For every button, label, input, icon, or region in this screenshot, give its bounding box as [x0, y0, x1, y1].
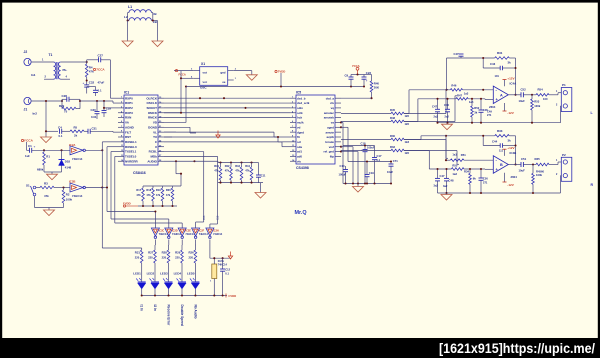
wire C9/C23 top link [351, 74, 364, 76]
inverter IC2C 74HC14 [154, 225, 156, 228]
wire AOUTB- to op-amp B [404, 150, 457, 152]
resistor R26 220 [194, 250, 197, 263]
svg-text:1k5: 1k5 [405, 151, 410, 155]
op-amp IC4B [493, 156, 508, 173]
svg-text:RXP3: RXP3 [125, 111, 133, 115]
capacitor C19 [366, 162, 368, 175]
svg-text:-12V: -12V [507, 111, 514, 115]
wire C row to IC5 sda [164, 141, 282, 143]
svg-text:R47: R47 [457, 93, 462, 97]
svg-text:7CCA: 7CCA [96, 68, 105, 72]
wire AOUTA+ to op-amp A [404, 113, 446, 115]
svg-text:10uF: 10uF [387, 170, 393, 174]
svg-text:C17: C17 [377, 154, 382, 158]
inverter IC2B 74HC14 [70, 183, 83, 192]
capacitor C47 shunt A [437, 99, 439, 110]
capacitor C17 [374, 146, 376, 158]
capacitor C40 shunt A [447, 99, 449, 110]
svg-text:FVDD: FVDD [123, 202, 131, 206]
svg-text:C43: C43 [490, 62, 496, 66]
svg-text:R1: R1 [46, 155, 50, 159]
svg-text:R35: R35 [535, 157, 541, 161]
inductor L2 FB [129, 18, 151, 21]
wire supply rail horizontal [186, 86, 364, 88]
junction R34 top [469, 168, 471, 170]
svg-text:100uF: 100uF [367, 145, 375, 149]
capacitor C11 [258, 163, 260, 176]
wire AUDIO row [164, 160, 195, 162]
wire feedback right leg B [515, 136, 517, 165]
svg-text:C30: C30 [91, 108, 97, 112]
wire VL row stub [164, 131, 176, 133]
junction inverter1 feed [154, 210, 156, 212]
wire pair right riser [76, 108, 80, 110]
resistor R56 load [532, 165, 534, 174]
svg-text:R4560: R4560 [536, 169, 544, 173]
capacitor C27 [98, 57, 100, 62]
wire LED1 to bus [141, 289, 143, 296]
IC1 pin VA [118, 121, 124, 123]
svg-text:PE-: PE- [63, 68, 68, 72]
svg-text:C47: C47 [432, 105, 437, 109]
caption bar [0, 338, 600, 358]
capacitor C28 [62, 98, 67, 100]
inverter IC2E 74HC14 [181, 225, 183, 228]
IC5 pin vd [290, 126, 296, 128]
svg-text:U: U [155, 145, 157, 149]
svg-text:OSCLK: OSCLK [147, 101, 158, 105]
wire AOUTB+ row [341, 139, 391, 141]
wire L1-L2 right join [151, 12, 152, 14]
inverter IC2H 74HC14 [209, 225, 211, 228]
svg-text:680k: 680k [37, 168, 44, 172]
svg-text:LED5: LED5 [187, 272, 195, 276]
power flag FCCA [21, 139, 23, 141]
svg-text:C4: C4 [58, 126, 62, 130]
svg-text:C40: C40 [444, 103, 449, 107]
resistor R51 [446, 159, 450, 161]
junction C28 pair right [79, 100, 81, 102]
junction node X B [445, 135, 447, 137]
svg-text:CS4398: CS4398 [296, 166, 309, 170]
wire TX row to IC5 scl [164, 136, 278, 138]
IC5 pin dsd_sclk [290, 102, 296, 104]
svg-text:sdin: sdin [297, 106, 303, 110]
resistor R45 [391, 112, 404, 115]
capacitor C50 shunt B [480, 169, 482, 178]
ground reference circuit [51, 172, 53, 174]
IC1 pin RST [118, 136, 124, 138]
svg-text:IC2G: IC2G [218, 259, 224, 263]
wire cap bank top rail A [343, 145, 375, 147]
svg-text:3k: 3k [508, 138, 512, 142]
feedback capacitor C43 [482, 58, 484, 68]
wire P1 pin2 down to ground bus A [560, 106, 562, 123]
svg-text:C71: C71 [393, 159, 398, 163]
power arrow at jumper net [230, 252, 232, 257]
capacitor C31 [84, 130, 88, 132]
svg-text:47k: 47k [166, 193, 171, 197]
svg-text:No Audio: No Audio [193, 305, 197, 319]
IC1 pin TXSEL0 [118, 155, 124, 157]
svg-text:FCCA: FCCA [24, 139, 33, 143]
svg-text:Receive Error: Receive Error [166, 305, 170, 326]
junction C48 top [480, 98, 482, 100]
junction T1-R4 node [86, 61, 88, 63]
wire R54 to P1 pin1 [549, 94, 558, 96]
svg-text:vq: vq [331, 106, 335, 110]
wire data bus row 4 IC1-IC5 [164, 112, 290, 114]
wire dsd_a row extension [341, 97, 372, 99]
wire C32-C3 top link [87, 86, 96, 88]
capacitor C1 electrolytic [29, 148, 31, 153]
svg-text:+: + [83, 81, 85, 85]
svg-text:R30: R30 [390, 134, 395, 138]
svg-text:0.1: 0.1 [59, 134, 63, 138]
svg-text:7CCA: 7CCA [352, 64, 360, 68]
junction X1 vcc [180, 77, 182, 79]
svg-text:TX: TX [153, 135, 157, 139]
wire FILT net left [46, 130, 58, 132]
svg-text:R48: R48 [390, 116, 395, 120]
wire FILT net ground stub [45, 131, 47, 137]
junction C12 top [222, 257, 224, 259]
svg-text:dsd_a: dsd_a [326, 96, 335, 100]
junction right of L2 [152, 19, 154, 21]
svg-text:IC1: IC1 [124, 91, 129, 95]
svg-text:R: R [591, 183, 594, 187]
wire S1 to R3 [36, 187, 40, 189]
wire AOUTA+ row [341, 113, 391, 115]
wire AOUTA- row [341, 121, 391, 123]
wire node X vertical A [446, 58, 448, 90]
junction C18 top [364, 144, 366, 146]
wire node down to LED1 resistor [101, 188, 103, 249]
wire data bus row 1 IC1-IC5 [164, 97, 290, 99]
svg-text:Double Speed: Double Speed [180, 305, 184, 326]
IC1 pin RXP0 [118, 97, 124, 99]
resistor R55 [451, 168, 463, 171]
svg-text:74HC14: 74HC14 [159, 233, 169, 236]
wire output node to inverter1 feed [102, 187, 107, 189]
svg-text:4148: 4148 [65, 166, 72, 170]
svg-text:1a3: 1a3 [464, 91, 469, 95]
wire R35 to P2 pin1 [549, 164, 558, 166]
resistor R29 220 [181, 250, 184, 263]
wire R56 bottom [532, 184, 534, 193]
svg-text:LED3: LED3 [160, 272, 168, 276]
resistor R18 [152, 186, 154, 188]
wire R41 bank bottom bus [218, 182, 263, 184]
svg-text:In1: In1 [31, 73, 36, 77]
svg-text:ad0: ad0 [297, 155, 302, 159]
svg-text:bmute: bmute [325, 140, 334, 144]
svg-text:RST: RST [125, 135, 131, 139]
resistor R40 [371, 75, 373, 82]
junction R52 top [471, 98, 473, 100]
junction node X A [445, 89, 447, 91]
svg-text:IC2B: IC2B [69, 180, 75, 184]
svg-text:acplb: acplb [326, 135, 334, 139]
feedback resistor R31 [447, 57, 495, 59]
resistor R43 [240, 161, 242, 163]
junction B minus node [445, 159, 447, 161]
svg-text:MDb: MDb [151, 155, 158, 159]
capacitor C10 electrolytic [342, 146, 344, 170]
wire C52 to R54 [523, 94, 536, 96]
svg-text:1a1: 1a1 [452, 153, 457, 157]
jumper IC2G 74HC14 [212, 264, 217, 279]
junction D18 top [60, 149, 62, 151]
capacitor C4 [59, 129, 61, 134]
wire X1 gnd to ground [234, 70, 252, 72]
svg-text:75: 75 [64, 110, 68, 114]
svg-text:R51: R51 [461, 153, 466, 157]
junction feedback output A [514, 94, 516, 96]
svg-text:P1: P1 [562, 83, 566, 87]
svg-text:RXP0: RXP0 [125, 96, 133, 100]
resistor R44 [250, 161, 252, 163]
wire L1-L2 left join [128, 12, 129, 14]
svg-text:+12V: +12V [507, 146, 515, 150]
resistor R4 [86, 62, 88, 64]
svg-text:R31: R31 [497, 51, 503, 55]
svg-text:C1: C1 [28, 144, 32, 148]
wire inverter1 feed [107, 211, 155, 213]
svg-text:74HC14: 74HC14 [199, 233, 209, 236]
wire R3 to IC2B [54, 187, 70, 189]
svg-text:Mr.Q: Mr.Q [295, 210, 307, 216]
wire AOUTB+ jog to node X [404, 139, 421, 141]
wire P2 pin2 down to ground bus B [560, 176, 562, 193]
wire C27 to IC1 RXP0 [101, 59, 111, 61]
svg-text:gnd: gnd [220, 70, 225, 74]
svg-text:C32: C32 [89, 81, 95, 85]
svg-text:C47: C47 [440, 174, 445, 178]
op-amp IC4A [493, 86, 508, 103]
capacitor C32 electrolytic [84, 84, 89, 86]
svg-text:C49: C49 [487, 109, 492, 113]
junction C40 top [446, 98, 448, 100]
wire VL row to IC5 flt [164, 131, 274, 133]
wire data bus row 5 IC1-IC5 [164, 117, 290, 119]
svg-text:0.1: 0.1 [225, 272, 229, 276]
op-amp IC1 CS8416 receiver [124, 95, 158, 165]
IC1 pin NVRERR [118, 160, 124, 162]
wire R29 to LED4 [181, 263, 183, 282]
svg-text:271: 271 [487, 113, 492, 117]
wire va riser down [341, 121, 343, 123]
svg-text:1a3: 1a3 [452, 172, 457, 176]
IC5 pin vls [290, 160, 296, 162]
svg-text:scl: scl [297, 140, 301, 144]
svg-text:AUDIO: AUDIO [147, 159, 157, 163]
IC5 pin ad0 [290, 155, 296, 157]
wire R40 bottom to dsd_a row [371, 92, 373, 98]
svg-text:R26: R26 [189, 251, 195, 255]
svg-text:1uF: 1uF [25, 154, 30, 158]
svg-text:74HC14: 74HC14 [185, 233, 195, 236]
capacitor C47 shunt B [437, 169, 439, 178]
svg-text:IC5: IC5 [296, 91, 301, 95]
wire S1 bottom [34, 196, 36, 208]
svg-text:R54: R54 [538, 88, 544, 92]
svg-text:2a2: 2a2 [434, 115, 439, 119]
svg-text:RXN: RXN [125, 116, 131, 120]
resistor R48 [391, 120, 404, 123]
ground cap bank [357, 184, 359, 187]
wire AUDIO tap down to R17 bank [175, 161, 177, 173]
IC5 pin scl [290, 141, 296, 143]
wire TXSEL1 riser [111, 151, 118, 153]
power flag FCCA at X1 [174, 70, 194, 72]
wire R40 top link [364, 74, 372, 76]
svg-text:flip: flip [330, 155, 335, 159]
svg-text:R41: R41 [214, 164, 219, 168]
junction C71 top [390, 160, 392, 162]
capacitor C12 [222, 258, 224, 269]
svg-text:9k: 9k [473, 177, 477, 181]
junction riser 107 [106, 186, 108, 188]
svg-text:FILT: FILT [125, 130, 131, 134]
svg-text:B: B [500, 163, 503, 167]
wire C51 to R35 [523, 164, 536, 166]
svg-text:1k5: 1k5 [405, 114, 410, 118]
wire DGND row stub [164, 126, 190, 128]
svg-text:R43: R43 [235, 164, 240, 168]
svg-text:agnd: agnd [327, 125, 334, 129]
wire inverter to resistor R27 [154, 240, 156, 246]
ground bus A ground symbol [446, 123, 448, 125]
junction IC2B output node [101, 186, 103, 188]
resistor R1 [43, 150, 45, 152]
IC1 pin RXP1 [118, 102, 124, 104]
svg-text:47k: 47k [245, 169, 250, 173]
svg-text:74HC14: 74HC14 [72, 157, 83, 161]
wire AOUTB- row [341, 150, 391, 152]
junction supply rail C23 [363, 85, 365, 87]
svg-text:L1: L1 [128, 5, 132, 9]
svg-text:DGND: DGND [148, 125, 158, 129]
ground below L2 left [122, 41, 133, 47]
svg-text:C10: C10 [340, 164, 345, 168]
feedback capacitor C44 [482, 136, 484, 146]
resistor R17 [142, 186, 144, 188]
junction C50 top [480, 168, 482, 170]
junction C48b top [445, 168, 447, 170]
svg-text:C47: C47 [454, 52, 459, 56]
wire C32 bottom stub [86, 87, 88, 93]
wire R2 bottom [63, 203, 65, 208]
svg-text:C28: C28 [62, 94, 68, 98]
resistor R46 [450, 89, 462, 92]
svg-text:2604: 2604 [511, 175, 518, 179]
wire inverter3 feed [115, 222, 182, 224]
wire C4 to R5 [62, 130, 70, 132]
junction jumper top [213, 257, 215, 259]
svg-text:R2: R2 [66, 193, 70, 197]
IC1 pin FILT [118, 131, 124, 133]
wire R17 bank bottom rail FVDD [138, 205, 177, 207]
svg-text:47uF: 47uF [98, 81, 105, 85]
svg-text:220: 220 [189, 256, 194, 260]
wire C1 to R1 node [32, 149, 70, 151]
power flag 7CCA analog supply [93, 68, 95, 70]
junction R53 tap [531, 94, 533, 96]
IC1 pin RXSEL0 [118, 146, 124, 148]
svg-text:220: 220 [162, 256, 167, 260]
diode D18 1N4148 [61, 150, 63, 159]
wire R51 to op-amp B minus [464, 159, 493, 161]
resistor R19 [162, 186, 164, 188]
resistor R3 [40, 186, 54, 189]
svg-text:47k: 47k [136, 193, 141, 197]
resistor R21 220 [140, 250, 143, 263]
svg-text:C51: C51 [521, 157, 527, 161]
wire data bus row 2 IC1-IC5 [164, 102, 290, 104]
svg-text:R17: R17 [136, 188, 141, 192]
svg-text:RMCK: RMCK [148, 116, 158, 120]
svg-text:2k: 2k [74, 134, 78, 138]
svg-text:R33: R33 [497, 129, 503, 133]
IC5 pin ad1 [290, 151, 296, 153]
inverter IC2A 74HC14 [70, 146, 83, 155]
wire FCCA to C1 [26, 142, 28, 150]
IC1 pin RXP2 [118, 107, 124, 109]
svg-text:lrck: lrck [297, 116, 303, 120]
wire VD row to supply riser [164, 121, 186, 123]
svg-text:R27: R27 [148, 251, 154, 255]
junction IC2A output [101, 149, 103, 151]
wire AOUTB- jog to R55 [404, 150, 429, 152]
wire node X vertical B [445, 136, 447, 160]
wire LED2 to bus [154, 289, 156, 296]
svg-text:C50: C50 [483, 177, 488, 181]
resistor R42 [230, 161, 232, 163]
oscillator X1 [200, 67, 228, 86]
svg-text:C19: C19 [369, 171, 374, 175]
svg-text:vcc: vcc [203, 80, 208, 84]
svg-text:RXSEL1: RXSEL1 [125, 140, 137, 144]
IC1 pin RXN [118, 117, 124, 119]
svg-text:C13: C13 [204, 215, 206, 220]
svg-text:C9: C9 [345, 74, 349, 78]
junction A minus node [482, 89, 484, 91]
junction R56 tap [532, 163, 534, 165]
svg-text:LED4: LED4 [174, 272, 182, 276]
IC5 pin sclk [290, 112, 296, 114]
wire pair to IC1 RXP1 [80, 100, 113, 102]
capacitor C52 output [520, 92, 522, 97]
svg-text:R34: R34 [464, 170, 469, 174]
ground below L2 right [152, 41, 163, 47]
svg-text:R18: R18 [146, 188, 151, 192]
svg-text:R5: R5 [74, 126, 78, 130]
junction riser at OMCK row [180, 112, 182, 114]
resistor R52 shunt A [471, 99, 473, 106]
junction supply rail C9 [350, 85, 352, 87]
svg-text:TXSEL1: TXSEL1 [125, 150, 137, 154]
wire feedback right leg A [515, 58, 517, 95]
wire ref_gnd riser down [341, 151, 358, 153]
svg-text:R45: R45 [390, 108, 395, 112]
wire R41 bank top rail [218, 162, 253, 164]
wire op-amp A output [508, 94, 521, 96]
power port VD arrow [217, 131, 219, 136]
resistor R29 [62, 107, 76, 110]
IC5 pin sdin [290, 107, 296, 109]
junction C19 top [366, 160, 368, 162]
